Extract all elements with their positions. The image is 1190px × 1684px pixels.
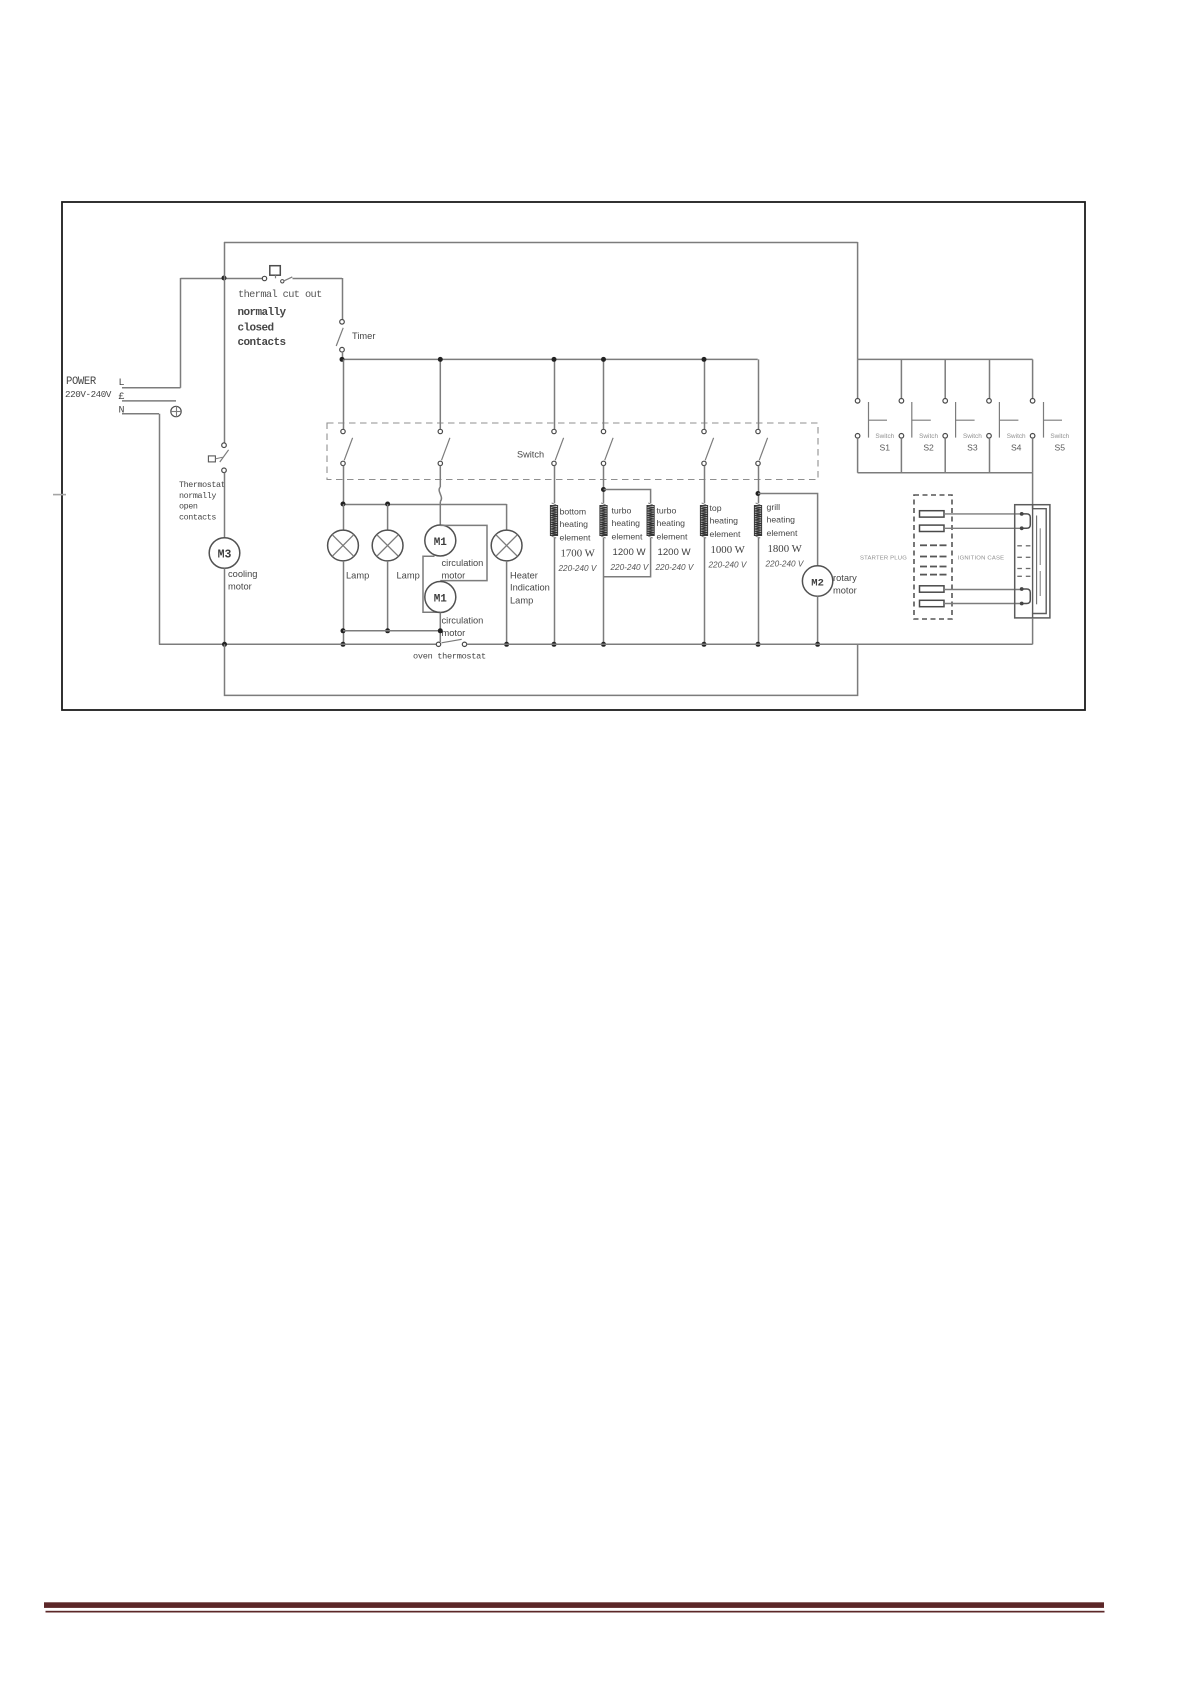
svg-text:1800 W: 1800 W xyxy=(768,543,803,555)
svg-text:rotary: rotary xyxy=(833,573,857,583)
motor M2 rotary motor xyxy=(802,566,832,596)
ignition case inner body xyxy=(1033,505,1047,618)
switch column 3 feeder xyxy=(554,359,556,429)
earth symbol xyxy=(171,406,181,416)
switch S2 feeder xyxy=(900,359,902,398)
wire bank to ignition case xyxy=(1032,473,1034,509)
motor M1 circulation motor lower xyxy=(425,582,456,613)
svg-text:220-240 V: 220-240 V xyxy=(558,564,598,573)
svg-text:S3: S3 xyxy=(967,443,978,453)
svg-text:Thermostat: Thermostat xyxy=(179,480,226,490)
switch bank bottom rail xyxy=(858,472,1033,474)
svg-text:heating: heating xyxy=(560,519,589,529)
svg-text:heating: heating xyxy=(767,515,796,525)
bottom loop wire xyxy=(225,644,858,695)
switch 2 contacts and blade xyxy=(438,429,442,433)
svg-text:Switch: Switch xyxy=(875,433,894,440)
switch column 1 feeder xyxy=(343,359,345,429)
svg-text:Switch: Switch xyxy=(517,450,544,460)
M1 parallel loop left box xyxy=(423,556,440,612)
svg-text:element: element xyxy=(767,528,798,538)
svg-text:Heater: Heater xyxy=(510,571,538,581)
wire plug terminal 1 to ignition case xyxy=(944,513,1022,515)
svg-text:M1: M1 xyxy=(434,594,448,606)
svg-text:STARTER PLUG: STARTER PLUG xyxy=(860,556,907,562)
switch S3 contacts xyxy=(943,399,948,404)
wire thermostat branch xyxy=(224,278,226,443)
node M3 bus xyxy=(222,642,227,647)
switch 3 contacts and blade xyxy=(552,429,556,433)
wire M2 to bus xyxy=(817,596,819,644)
switch S3 actuator bar xyxy=(955,402,957,438)
stray scan mark xyxy=(53,494,66,496)
wire top rail drop to switch-bank rail xyxy=(857,242,859,359)
starter plug terminal 2 xyxy=(920,525,945,531)
svg-text:220V-240V: 220V-240V xyxy=(65,389,112,400)
wire L riser xyxy=(180,278,182,388)
switch S1 feeder xyxy=(857,359,859,398)
switch 5 contacts and blade xyxy=(702,429,706,433)
thermal cut out contact xyxy=(262,276,266,280)
svg-text:element: element xyxy=(612,532,643,542)
switch 6 contacts and blade xyxy=(756,429,760,433)
bottom bus left segment xyxy=(159,643,436,645)
svg-text:Lamp: Lamp xyxy=(397,571,420,581)
wire top rail vertical xyxy=(224,242,226,278)
svg-text:220-240 V: 220-240 V xyxy=(655,563,695,572)
wire N vertical to bottom bus xyxy=(159,414,161,645)
svg-text:turbo: turbo xyxy=(657,506,677,516)
svg-text:220-240 V: 220-240 V xyxy=(708,561,748,570)
svg-text:motor: motor xyxy=(442,628,466,638)
turbo heating element 1 column xyxy=(603,466,605,503)
switch S2 contacts xyxy=(899,399,904,404)
lamp L1 xyxy=(328,530,359,561)
starter plug terminal 1 xyxy=(920,511,945,517)
switch column 4 feeder xyxy=(603,359,605,429)
svg-text:grill: grill xyxy=(767,502,781,512)
oven thermostat switch xyxy=(436,642,440,646)
wire M3 to bottom bus xyxy=(224,568,226,644)
svg-text:element: element xyxy=(710,529,741,539)
wire switch2 to M1 with jog xyxy=(439,466,441,487)
switch S3 feeder xyxy=(944,359,946,398)
heater indication lamp column xyxy=(506,504,508,530)
lamp L1 column xyxy=(343,504,345,530)
svg-text:normally: normally xyxy=(179,491,216,501)
svg-text:bottom: bottom xyxy=(560,507,587,517)
switch S1 actuator bar xyxy=(868,402,870,438)
svg-text:motor: motor xyxy=(833,586,857,596)
svg-text:contacts: contacts xyxy=(238,337,286,349)
svg-text:Lamp: Lamp xyxy=(510,596,533,606)
M1 parallel loop right box xyxy=(440,525,487,580)
svg-text:closed: closed xyxy=(238,323,274,335)
diagram border frame xyxy=(62,202,1085,710)
svg-text:cooling: cooling xyxy=(228,569,257,579)
wire M1 to oven thermostat xyxy=(439,613,441,643)
wire N xyxy=(122,413,159,415)
starter plug terminal 3 xyxy=(920,586,945,592)
wire L xyxy=(122,387,181,389)
svg-text:POWER: POWER xyxy=(66,376,97,388)
rotary motor M2 branch xyxy=(758,494,818,566)
switch S4 contacts xyxy=(987,399,992,404)
node junction L/thermal-cutout/thermostat xyxy=(222,276,227,281)
svg-text:open: open xyxy=(179,502,198,512)
svg-text:heating: heating xyxy=(710,516,739,526)
wire L top horizontal to node xyxy=(181,278,263,280)
starter plug terminal 4 xyxy=(920,600,945,606)
thermostat normally open switch xyxy=(222,443,227,448)
heater indication lamp xyxy=(491,530,522,561)
svg-text:S1: S1 xyxy=(880,443,891,453)
wire plug terminal 2 to ignition case xyxy=(944,527,1022,529)
lamp L2 xyxy=(372,530,403,561)
turbo heating element 2 parallel branch xyxy=(604,490,651,504)
lamp L2 column xyxy=(387,504,389,530)
switch S4 actuator bar xyxy=(998,402,1000,438)
svg-text:contacts: contacts xyxy=(179,512,216,522)
switch S5 feeder xyxy=(1032,359,1034,398)
svg-text:turbo: turbo xyxy=(612,506,632,516)
wire ignition case to bottom bus xyxy=(1032,618,1034,644)
ignition case inner lines xyxy=(1036,516,1038,605)
svg-text:Indication: Indication xyxy=(510,583,550,593)
svg-text:1700 W: 1700 W xyxy=(561,548,596,560)
svg-text:S4: S4 xyxy=(1011,443,1022,453)
wire switch1 to lamp rail xyxy=(343,466,345,504)
svg-text:220-240 V: 220-240 V xyxy=(610,563,650,572)
svg-text:1200 W: 1200 W xyxy=(613,547,647,558)
svg-text:element: element xyxy=(657,532,688,542)
switch column 2 feeder xyxy=(439,359,441,429)
footer rule thin xyxy=(46,1611,1105,1613)
svg-text:Lamp: Lamp xyxy=(346,571,369,581)
wire element rail xyxy=(342,358,758,360)
lamp rail xyxy=(343,504,507,506)
wire lamp L1 to bus xyxy=(343,561,345,645)
svg-text:Switch: Switch xyxy=(963,433,982,440)
starter plug spare dashes xyxy=(920,544,927,546)
timer switch xyxy=(340,320,345,325)
wire lamp L2 to lamp bus xyxy=(387,561,389,631)
svg-text:element: element xyxy=(560,533,591,543)
ignition case spare dashes xyxy=(1017,545,1022,547)
switch 4 contacts and blade xyxy=(601,429,605,433)
switch S5 actuator bar xyxy=(1043,402,1045,438)
svg-text:Switch: Switch xyxy=(919,433,938,440)
bottom heating element column xyxy=(554,466,556,503)
switch S5 contacts xyxy=(1030,399,1035,404)
ignition case top contact clip xyxy=(1022,514,1031,528)
switch column 5 feeder xyxy=(704,359,706,429)
switch bank top rail xyxy=(858,358,1033,360)
lamp bottom bus xyxy=(343,630,440,632)
svg-text:N: N xyxy=(119,406,125,417)
switch column 6 feeder xyxy=(758,359,760,429)
svg-text:IGNITION CASE: IGNITION CASE xyxy=(958,556,1004,562)
svg-text:heating: heating xyxy=(657,518,686,528)
svg-text:motor: motor xyxy=(228,582,252,592)
ignition case bottom contact clip xyxy=(1022,589,1031,604)
switch S4 feeder xyxy=(989,359,991,398)
wire to timer corner xyxy=(293,278,343,280)
svg-text:M3: M3 xyxy=(218,549,232,562)
svg-text:220-240 V: 220-240 V xyxy=(765,560,805,569)
svg-text:Timer: Timer xyxy=(352,331,375,341)
wire heater indication lamp to bus xyxy=(506,561,508,645)
svg-text:normally: normally xyxy=(238,307,287,319)
switch group dashed box xyxy=(327,423,818,480)
svg-text:1200 W: 1200 W xyxy=(658,547,692,558)
svg-text:M2: M2 xyxy=(811,578,824,590)
thermostat actuator square xyxy=(208,456,215,462)
thermal cut out actuator square xyxy=(270,266,281,276)
footer rule thick xyxy=(44,1602,1104,1608)
top heating element column xyxy=(704,466,706,503)
svg-text:Switch: Switch xyxy=(1050,433,1069,440)
svg-text:oven thermostat: oven thermostat xyxy=(413,652,486,662)
wire plug terminal 4 to ignition case xyxy=(944,603,1022,605)
svg-text:S5: S5 xyxy=(1055,443,1066,453)
svg-text:circulation: circulation xyxy=(442,558,484,568)
svg-text:Switch: Switch xyxy=(1007,433,1026,440)
motor M1 circulation motor upper xyxy=(425,525,456,556)
svg-text:M1: M1 xyxy=(434,537,448,549)
wire E xyxy=(122,400,176,402)
switch 1 contacts and blade xyxy=(341,429,345,433)
switch S2 actuator bar xyxy=(911,402,913,438)
svg-text:S2: S2 xyxy=(923,443,934,453)
bottom bus right segment xyxy=(467,643,1033,645)
svg-text:1000 W: 1000 W xyxy=(711,544,746,556)
svg-text:motor: motor xyxy=(442,571,466,581)
svg-text:heating: heating xyxy=(612,518,641,528)
node timer-rail xyxy=(340,357,345,362)
wire plug terminal 3 to ignition case xyxy=(944,589,1022,591)
motor M3 cooling motor xyxy=(209,538,240,569)
switch S1 contacts xyxy=(855,399,860,404)
svg-text:top: top xyxy=(710,503,722,513)
ignition case outer body xyxy=(1015,505,1050,618)
grill heating element column xyxy=(758,466,760,503)
thermal cut out blade xyxy=(281,280,284,283)
starter plug dashed box xyxy=(914,495,952,619)
wire thermostat to M3 xyxy=(224,473,226,538)
svg-text:thermal cut out: thermal cut out xyxy=(238,289,322,301)
wire top rail xyxy=(224,242,858,244)
svg-text:circulation: circulation xyxy=(442,616,484,626)
